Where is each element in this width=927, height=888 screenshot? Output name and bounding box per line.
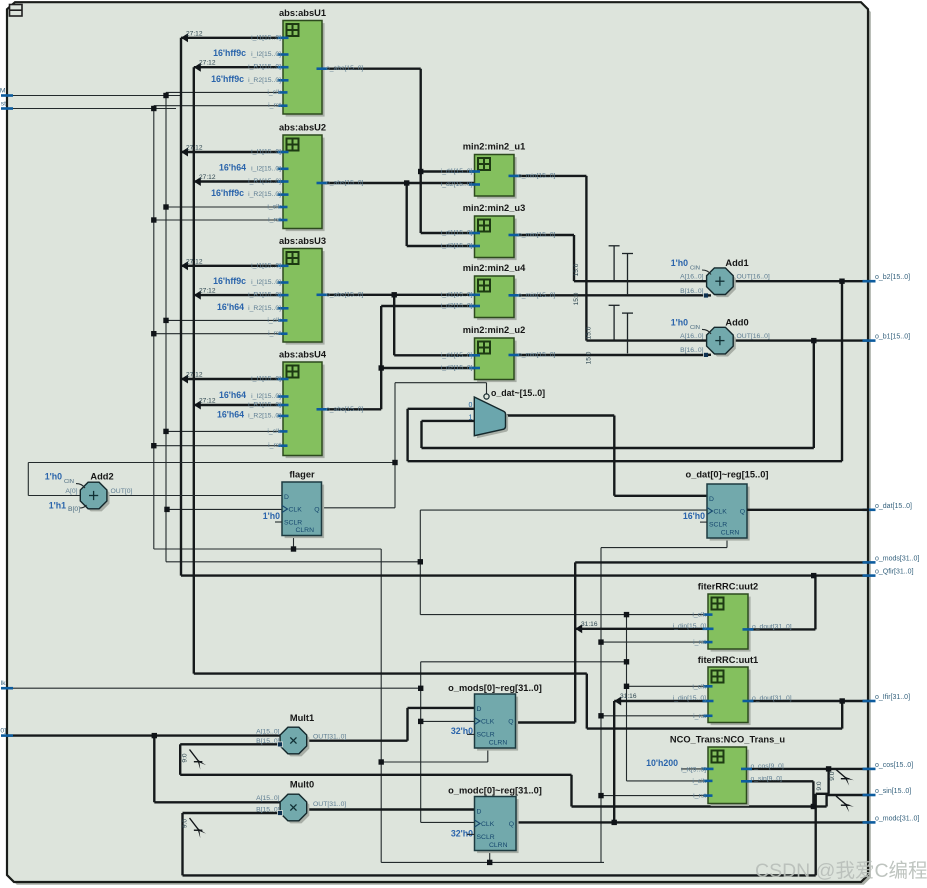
- svg-text:i_R2[15..0]: i_R2[15..0]: [248, 305, 281, 312]
- svg-text:31:16: 31:16: [581, 621, 598, 628]
- svg-text:16'hff9c: 16'hff9c: [211, 188, 244, 198]
- o_mods Q net: [516, 721, 576, 723]
- wire junction at 167,509.4: [164, 507, 169, 512]
- flager Q net: [322, 507, 396, 509]
- svg-text:o_mods[0]~reg[31..0]: o_mods[0]~reg[31..0]: [448, 683, 542, 693]
- absU1 R1 slice wire: [194, 66, 283, 68]
- svg-text:9:0: 9:0: [181, 753, 188, 762]
- abs:absU3: [283, 249, 325, 345]
- svg-text:SCLR: SCLR: [709, 522, 727, 529]
- svg-text:i_d2[15..0]: i_d2[15..0]: [441, 181, 473, 188]
- svg-text:o_modc[0]~reg[31..0]: o_modc[0]~reg[31..0]: [448, 786, 542, 796]
- absU3 out net: [322, 294, 475, 296]
- wire junction at 626.5,686.3: [624, 684, 629, 689]
- svg-text:B[15..0]: B[15..0]: [256, 738, 280, 745]
- output o_Ifir[31..0]: [863, 700, 876, 703]
- svg-text:fiterRRC:uut2: fiterRRC:uut2: [698, 582, 758, 592]
- svg-text:i_I1[15..0]: i_I1[15..0]: [251, 376, 281, 383]
- left border input stubs: [1, 94, 13, 97]
- svg-text:i_I2[15..0]: i_I2[15..0]: [251, 279, 281, 286]
- svg-text:A[15..0]: A[15..0]: [256, 795, 280, 802]
- svg-text:27:12: 27:12: [199, 288, 216, 295]
- NCO K constant stub: [681, 768, 708, 770]
- svg-text:1'h1: 1'h1: [49, 501, 66, 511]
- svg-text:27:12: 27:12: [199, 60, 216, 67]
- o_Ifir border line: [748, 700, 869, 702]
- wire junction at 166,431.4: [163, 429, 168, 434]
- wire junction at 489.7,862.4: [487, 860, 492, 865]
- wire junction at 601,795.6: [598, 793, 603, 798]
- svg-text:Q: Q: [314, 507, 319, 514]
- min2:min2_u4: [475, 276, 517, 320]
- absU1 out net: [322, 67, 421, 69]
- wire junction at 813.7,575.6: [811, 573, 816, 578]
- svg-text:9:0: 9:0: [181, 819, 188, 828]
- min2:min2_u3 ports: [469, 232, 480, 235]
- abs:absU4: [283, 362, 325, 458]
- output o_dat[15..0]: [863, 508, 876, 511]
- svg-text:OUT[31..0]: OUT[31..0]: [313, 801, 346, 808]
- svg-text:16'h64: 16'h64: [219, 162, 246, 172]
- register o_modc[0]~reg[31..0]: [475, 797, 519, 854]
- Add2 A loop: [28, 462, 395, 464]
- output o_b1[15..0]: [863, 339, 876, 342]
- svg-text:B[0]: B[0]: [68, 506, 80, 513]
- min2:min2_u4 ports: [469, 293, 480, 296]
- input rst wire: [7, 108, 176, 110]
- wire junction at 842,281.2: [839, 279, 844, 284]
- bus slice flag 27:12 at 193.8,67.2: [194, 63, 201, 72]
- svg-text:o_cos[15..0]: o_cos[15..0]: [875, 762, 913, 769]
- svg-text:A[16..0]: A[16..0]: [680, 274, 704, 281]
- adder Add0: [707, 327, 736, 356]
- mux output to o_dat reg D: [504, 414, 614, 416]
- svg-text:lk: lk: [1, 680, 7, 687]
- svg-text:i_I1[15..0]: i_I1[15..0]: [251, 149, 281, 156]
- svg-text:i_d2[15..0]: i_d2[15..0]: [441, 365, 473, 372]
- min2:min2_u2: [475, 338, 517, 382]
- wire junction at 626.5,614.6: [624, 612, 629, 617]
- wire junction at 153.8,445.7: [151, 443, 156, 448]
- wire junction at 813.8,340.6: [811, 338, 816, 343]
- multiplier Mult1: [280, 727, 309, 756]
- wire junction at 381.2,762: [379, 759, 384, 764]
- output o_modc[31..0]: [863, 821, 876, 824]
- svg-text:OUT[31..0]: OUT[31..0]: [313, 734, 346, 741]
- svg-text:27:12: 27:12: [186, 145, 203, 152]
- svg-text:i_rst: i_rst: [268, 217, 281, 224]
- svg-text:16'hff9c: 16'hff9c: [211, 74, 244, 84]
- bus slice flag 27:12 at 193.8,181.5: [194, 177, 201, 186]
- svg-text:15:0: 15:0: [586, 351, 593, 364]
- svg-text:i_I1[15..0]: i_I1[15..0]: [251, 34, 281, 41]
- svg-text:st: st: [1, 101, 6, 108]
- svg-text:1: 1: [469, 414, 473, 421]
- wire junction at 601,642.1: [598, 639, 603, 644]
- svg-text:o_b1[15..0]: o_b1[15..0]: [875, 334, 910, 341]
- svg-text:27:12: 27:12: [199, 174, 216, 181]
- svg-text:o_b2[15..0]: o_b2[15..0]: [875, 274, 910, 281]
- svg-text:min2:min2_u3: min2:min2_u3: [463, 203, 526, 213]
- bus slice flag 27:12 at 181,265.8: [181, 261, 188, 270]
- svg-text:1'h0: 1'h0: [263, 511, 280, 521]
- wire junction at 154.3,735.6: [152, 733, 157, 738]
- Ifir return path: [194, 672, 587, 674]
- svg-text:Add2: Add2: [90, 472, 113, 482]
- svg-text:27:12: 27:12: [186, 30, 203, 37]
- uut2 din slice: [575, 628, 708, 630]
- b1 feedback to mux in1: [813, 341, 815, 448]
- input dat wire: [7, 734, 281, 736]
- wire junction at 394.2,294.8: [392, 292, 397, 297]
- absU1 I1 slice wire: [181, 37, 283, 39]
- svg-text:o_min[15..0]: o_min[15..0]: [518, 352, 556, 359]
- svg-text:o_mods[31..0]: o_mods[31..0]: [875, 555, 919, 562]
- svg-text:CLRN: CLRN: [721, 530, 740, 537]
- svg-text:i_clk: i_clk: [692, 683, 706, 690]
- absU2 R1 slice wire: [194, 180, 283, 182]
- svg-text:i_clk: i_clk: [267, 204, 281, 211]
- svg-text:o_cos[9..0]: o_cos[9..0]: [751, 763, 784, 770]
- o_Qfir border line: [181, 574, 869, 576]
- svg-text:o_min[15..0]: o_min[15..0]: [518, 232, 556, 239]
- svg-text:31:16: 31:16: [620, 693, 637, 700]
- svg-text:SCLR: SCLR: [477, 834, 495, 841]
- wire junction at 813.4,806.5: [811, 804, 816, 809]
- svg-text:i_rst: i_rst: [268, 330, 281, 337]
- output o_Qfir[31..0]: [863, 574, 876, 577]
- svg-text:min2:min2_u1: min2:min2_u1: [463, 142, 526, 152]
- svg-text:i_clk: i_clk: [267, 428, 281, 435]
- bus slice flag 27:12 at 181,379: [181, 375, 188, 384]
- svg-text:Q: Q: [509, 821, 514, 828]
- abs:absU4 ports: [278, 378, 289, 381]
- svg-text:A[15..0]: A[15..0]: [256, 728, 280, 735]
- wire junction at 166,320.4: [163, 318, 168, 323]
- svg-text:o_Ifir[31..0]: o_Ifir[31..0]: [875, 694, 910, 701]
- svg-text:A[0]: A[0]: [65, 488, 77, 495]
- svg-text:9:0: 9:0: [829, 771, 836, 780]
- svg-text:o_abs[15..0]: o_abs[15..0]: [326, 291, 364, 298]
- NCO sin net: [747, 780, 814, 782]
- svg-text:CIN: CIN: [64, 479, 74, 485]
- abs:absU1: [283, 21, 325, 117]
- svg-text:o_dout[31..0]: o_dout[31..0]: [752, 695, 792, 702]
- Ifir bus vertical: [193, 67, 195, 673]
- svg-text:D: D: [709, 496, 714, 503]
- output o_b2[15..0]: [863, 280, 876, 283]
- CLRN / rst net left: [154, 548, 381, 550]
- svg-text:i_R2[15..0]: i_R2[15..0]: [248, 412, 281, 419]
- svg-text:i_rst: i_rst: [693, 713, 706, 720]
- absU2 I1 slice wire: [181, 151, 283, 153]
- svg-text:o_abs[15..0]: o_abs[15..0]: [326, 65, 364, 72]
- svg-text:abs:absU1: abs:absU1: [279, 8, 326, 18]
- min2:min2_u1 ports: [469, 170, 480, 173]
- svg-text:OUT[0]: OUT[0]: [111, 488, 133, 495]
- svg-text:i_R2[15..0]: i_R2[15..0]: [248, 191, 281, 198]
- rst distribution vertical: [153, 106, 155, 549]
- svg-text:B[16..0]: B[16..0]: [680, 347, 704, 354]
- adder Add1: [707, 268, 736, 297]
- svg-text:15:0: 15:0: [573, 263, 580, 276]
- sin to border jog: [813, 805, 826, 807]
- output o_cos[15..0]: [863, 768, 876, 771]
- svg-text:i_R1[15..0]: i_R1[15..0]: [248, 178, 281, 185]
- svg-text:i_d1[15..0]: i_d1[15..0]: [441, 352, 473, 359]
- tee symbols before adders: [613, 246, 615, 280]
- svg-text:CIN: CIN: [690, 325, 700, 331]
- Mult0 out to o_modc D: [306, 808, 475, 810]
- absU3 R1 slice wire: [194, 294, 283, 296]
- svg-text:i_d2[15..0]: i_d2[15..0]: [441, 303, 473, 310]
- abs:absU3 ports: [278, 264, 289, 267]
- svg-text:OUT[16..0]: OUT[16..0]: [737, 333, 770, 340]
- wire junction at 828.6,768.9: [826, 766, 831, 771]
- svg-text:16'h64: 16'h64: [217, 409, 244, 419]
- wire junction at 420.7,171.5: [418, 169, 423, 174]
- svg-text:16'h64: 16'h64: [219, 390, 246, 400]
- svg-text:Mult1: Mult1: [290, 713, 314, 723]
- svg-text:27:12: 27:12: [186, 372, 203, 379]
- input clk_M wire: [7, 95, 181, 97]
- o_dat Q wire: [747, 509, 869, 511]
- svg-text:1'h0: 1'h0: [45, 472, 62, 482]
- svg-text:abs:absU4: abs:absU4: [279, 350, 327, 360]
- abs:absU1 ports: [278, 36, 289, 39]
- svg-text:o_dat[0]~reg[15..0]: o_dat[0]~reg[15..0]: [686, 470, 769, 480]
- wire junction at 420.7,688.3: [418, 686, 423, 691]
- rst net right verticals: [726, 538, 728, 548]
- svg-text:fiterRRC:uut1: fiterRRC:uut1: [698, 655, 758, 665]
- wire junction at 381.2,368: [379, 365, 384, 370]
- svg-text:i_R1[15..0]: i_R1[15..0]: [248, 292, 281, 299]
- svg-text:i_d1[15..0]: i_d1[15..0]: [441, 168, 473, 175]
- wire junction at 153.8,108.5: [151, 106, 156, 111]
- svg-text:i_R2[15..0]: i_R2[15..0]: [248, 77, 281, 84]
- svg-text:o_dout[31..0]: o_dout[31..0]: [752, 623, 792, 630]
- svg-text:16'h64: 16'h64: [217, 302, 244, 312]
- svg-text:B[15..0]: B[15..0]: [256, 807, 280, 814]
- min2:min2_u3: [475, 216, 517, 260]
- rip arrows: [190, 750, 200, 763]
- svg-text:i_d1[15..0]: i_d1[15..0]: [441, 291, 473, 298]
- svg-text:Add0: Add0: [725, 317, 748, 327]
- uut1 din slice: [614, 700, 708, 702]
- min2_u4 out to Add1 B: [514, 294, 708, 296]
- svg-text:Mult0: Mult0: [290, 780, 314, 790]
- collapse icon: [10, 5, 23, 17]
- b2 feedback to mux in0: [841, 281, 843, 461]
- absU3 I1 slice wire: [181, 265, 283, 267]
- svg-text:0]: 0]: [0, 728, 6, 735]
- svg-text:A[16..0]: A[16..0]: [680, 333, 704, 340]
- bus slice flag 27:12 at 181,37.8: [181, 33, 188, 42]
- abs:absU2 ports: [278, 151, 289, 154]
- svg-text:i_I2[15..0]: i_I2[15..0]: [251, 393, 281, 400]
- svg-text:OUT[16..0]: OUT[16..0]: [737, 274, 770, 281]
- svg-text:abs:absU2: abs:absU2: [279, 123, 326, 133]
- clk distribution vertical: [165, 92, 167, 561]
- wire junction at 406.7,183: [404, 180, 409, 185]
- wire junction at 293.5,549: [291, 546, 296, 551]
- svg-text:32'h0: 32'h0: [451, 829, 473, 839]
- svg-text:i_din[15..0]: i_din[15..0]: [673, 695, 706, 702]
- svg-text:D: D: [477, 809, 482, 816]
- svg-text:i_I1[15..0]: i_I1[15..0]: [251, 262, 281, 269]
- svg-text:NCO_Trans:NCO_Trans_u: NCO_Trans:NCO_Trans_u: [670, 735, 786, 745]
- absU4 R1 slice wire: [194, 404, 283, 406]
- svg-text:o_abs[15..0]: o_abs[15..0]: [326, 406, 364, 413]
- wire junction at 626.5,661.8: [624, 659, 629, 664]
- svg-text:1'h0: 1'h0: [671, 258, 688, 268]
- NCO_Trans:NCO_Trans_u: [708, 747, 749, 806]
- svg-text:CSDN @我爱C编程: CSDN @我爱C编程: [755, 860, 927, 882]
- svg-text:o_min[15..0]: o_min[15..0]: [518, 172, 556, 179]
- svg-text:Add1: Add1: [725, 258, 748, 268]
- svg-text:15:0: 15:0: [573, 292, 580, 305]
- fiterRRC:uut1 ports: [704, 685, 713, 688]
- o_modc Q net: [516, 821, 869, 823]
- svg-text:o_abs[15..0]: o_abs[15..0]: [326, 180, 364, 187]
- svg-text:i_clk: i_clk: [692, 612, 706, 619]
- svg-text:15:0: 15:0: [586, 326, 593, 339]
- wire junction at 420.7,721.4: [418, 719, 423, 724]
- svg-text:abs:absU3: abs:absU3: [279, 236, 326, 246]
- absU4 I1 slice wire: [181, 378, 283, 380]
- svg-text:B[16..0]: B[16..0]: [680, 288, 704, 295]
- wire junction at 420.3,561.8: [418, 559, 423, 564]
- wire junction at 153.8,333.7: [151, 331, 156, 336]
- abs:absU2: [283, 135, 325, 231]
- fiterRRC:uut2: [708, 594, 751, 652]
- min2_u2 out to Add0 B: [514, 354, 708, 356]
- svg-text:CLRN: CLRN: [295, 527, 314, 534]
- svg-text:i_clk: i_clk: [267, 317, 281, 324]
- wire junction at 166,95.5: [163, 93, 168, 98]
- wire junction at 395,462.5: [392, 460, 397, 465]
- register o_mods[0]~reg[31..0]: [475, 694, 519, 751]
- min2:min2_u1: [475, 155, 517, 199]
- svg-text:10'h200: 10'h200: [646, 758, 678, 768]
- Add1 out to o_b2: [733, 280, 869, 282]
- wire junction at 614.2,822.4: [612, 820, 617, 825]
- svg-text:o_min[15..0]: o_min[15..0]: [518, 292, 556, 299]
- svg-text:flager: flager: [289, 470, 315, 480]
- svg-text:1'h0: 1'h0: [671, 317, 688, 327]
- absU4 out net: [322, 408, 381, 410]
- 31:16 flags for fiterRRC din: [575, 624, 582, 633]
- svg-text:i_I2[15..0]: i_I2[15..0]: [251, 165, 281, 172]
- register o_dat[0]~reg[15..0]: [707, 484, 750, 541]
- svg-text:CIN: CIN: [690, 266, 700, 272]
- Qfir bus vertical: [180, 38, 182, 576]
- svg-text:i_rst: i_rst: [693, 639, 706, 646]
- svg-text:CLRN: CLRN: [489, 842, 508, 849]
- register flager: [282, 482, 324, 538]
- Mult1 out to o_mods D: [306, 740, 408, 742]
- svg-text:Q: Q: [740, 509, 745, 516]
- Add0 out to o_b1: [733, 339, 869, 341]
- absU2 out net: [322, 182, 475, 184]
- svg-text:CLK: CLK: [714, 509, 728, 516]
- svg-text:SCLR: SCLR: [284, 520, 302, 527]
- output o_sin[15..0]: [863, 794, 876, 797]
- wire junction at 153.8,220: [151, 217, 156, 222]
- min2_u3 out net to Add1 A: [514, 234, 574, 236]
- svg-text:i_din[15..0]: i_din[15..0]: [673, 623, 706, 630]
- svg-text:i_R1[15..0]: i_R1[15..0]: [248, 402, 281, 409]
- NCO ports: [703, 768, 714, 771]
- wire junction at 842.2,701: [840, 698, 845, 703]
- clk lower route: [166, 561, 420, 563]
- svg-text:D: D: [477, 706, 482, 713]
- svg-text:min2:min2_u2: min2:min2_u2: [463, 325, 526, 335]
- svg-text:CLRN: CLRN: [489, 740, 508, 747]
- svg-text:27:12: 27:12: [199, 398, 216, 405]
- output o_mods[31..0]: [863, 561, 876, 564]
- svg-text:16'h0: 16'h0: [683, 511, 705, 521]
- fiterRRC:uut1: [708, 667, 751, 725]
- bus slice flag 27:12 at 193.8,295.1: [194, 291, 201, 300]
- bus slice flag 27:12 at 193.8,405: [194, 401, 201, 410]
- wire junction at 601,715.8: [598, 713, 603, 718]
- NCO cos net: [747, 768, 870, 770]
- mux o_dat~[15..0]: [477, 400, 508, 439]
- svg-text:i_I2[15..0]: i_I2[15..0]: [251, 51, 281, 58]
- svg-text:i_R1[15..0]: i_R1[15..0]: [248, 64, 281, 71]
- svg-text:o_dat[15..0]: o_dat[15..0]: [875, 503, 912, 510]
- min2:min2_u2 ports: [469, 354, 480, 357]
- svg-text:Q: Q: [508, 719, 513, 726]
- svg-text:16'hff9c: 16'hff9c: [213, 48, 246, 58]
- svg-text:o_sin[15..0]: o_sin[15..0]: [875, 788, 911, 795]
- svg-text:D: D: [284, 494, 289, 501]
- Qfir riser from uut2: [748, 628, 815, 630]
- svg-text:min2:min2_u4: min2:min2_u4: [463, 263, 526, 273]
- svg-text:i_clk: i_clk: [267, 89, 281, 96]
- min2_u1 out net to Add0 A: [514, 175, 586, 177]
- adder Add2: [80, 482, 109, 511]
- Add2 out to flager D: [107, 495, 282, 497]
- svg-text:16'hff9c: 16'hff9c: [213, 276, 246, 286]
- input clk2 wire: [7, 687, 421, 689]
- svg-text:M: M: [0, 88, 6, 95]
- svg-text:SCLR: SCLR: [477, 732, 495, 739]
- svg-text:0: 0: [469, 402, 473, 409]
- multiplier Mult0: [280, 794, 309, 823]
- bus slice flag 27:12 at 181,152: [181, 148, 188, 157]
- svg-text:o_Qfir[31..0]: o_Qfir[31..0]: [875, 569, 914, 576]
- wire junction at 166,207: [163, 204, 168, 209]
- svg-text:i_K[9..0]: i_K[9..0]: [681, 766, 706, 773]
- fiterRRC:uut2 ports: [704, 613, 713, 616]
- svg-text:i_rst: i_rst: [268, 102, 281, 109]
- svg-text:i_d1[15..0]: i_d1[15..0]: [441, 230, 473, 237]
- svg-text:i_d2[15..0]: i_d2[15..0]: [441, 243, 473, 250]
- svg-text:27:12: 27:12: [186, 258, 203, 265]
- svg-text:i_rst: i_rst: [268, 442, 281, 449]
- svg-text:o_sin[9..0]: o_sin[9..0]: [751, 775, 782, 782]
- svg-text:CLK: CLK: [481, 821, 495, 828]
- svg-text:9:0: 9:0: [816, 781, 823, 790]
- svg-text:o_modc[31..0]: o_modc[31..0]: [875, 815, 919, 822]
- svg-text:o_dat~[15..0]: o_dat~[15..0]: [491, 388, 545, 398]
- svg-text:CLK: CLK: [481, 719, 495, 726]
- svg-text:i_clk: i_clk: [692, 778, 706, 785]
- svg-text:i_rst: i_rst: [693, 793, 706, 800]
- svg-text:CLK: CLK: [289, 507, 303, 514]
